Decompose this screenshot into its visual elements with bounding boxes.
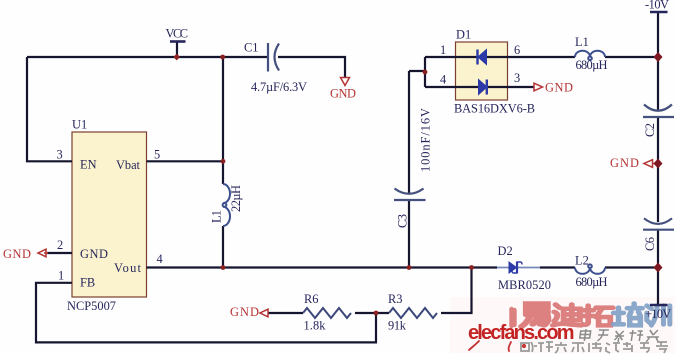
svg-text:4.7µF/6.3V: 4.7µF/6.3V <box>251 80 307 94</box>
svg-text:GND: GND <box>230 305 259 319</box>
svg-text:C6: C6 <box>643 237 657 251</box>
svg-text:R6: R6 <box>304 292 318 306</box>
svg-text:-10V: -10V <box>645 0 669 12</box>
svg-text:GND: GND <box>80 247 108 261</box>
svg-text:EN: EN <box>80 158 97 172</box>
svg-text:GND: GND <box>545 81 573 95</box>
svg-text:FB: FB <box>80 276 95 290</box>
svg-text:C3: C3 <box>396 214 410 228</box>
svg-text:4: 4 <box>157 252 163 266</box>
svg-text:GND: GND <box>610 156 639 170</box>
svg-text:Vbat: Vbat <box>116 158 141 172</box>
svg-text:22µH: 22µH <box>229 185 243 212</box>
svg-text:1: 1 <box>58 269 64 283</box>
svg-text:+10V: +10V <box>645 307 671 321</box>
svg-text:L2: L2 <box>575 254 589 268</box>
svg-text:GND: GND <box>3 247 31 261</box>
svg-text:BAS16DXV6-B: BAS16DXV6-B <box>454 102 535 116</box>
svg-text:4: 4 <box>440 73 446 87</box>
svg-text:VCC: VCC <box>166 27 189 41</box>
svg-text:2: 2 <box>57 238 63 252</box>
svg-text:L1: L1 <box>210 210 224 223</box>
svg-text:NCP5007: NCP5007 <box>67 299 116 313</box>
svg-text:MBR0520: MBR0520 <box>498 278 551 292</box>
svg-text:1.8k: 1.8k <box>304 319 327 333</box>
svg-text:680µH: 680µH <box>576 58 608 72</box>
svg-text:D2: D2 <box>498 244 513 258</box>
svg-text:elecfans.com: elecfans.com <box>468 322 574 344</box>
svg-text:D1: D1 <box>456 28 471 42</box>
svg-text:R3: R3 <box>388 292 402 306</box>
svg-text:L1: L1 <box>575 35 589 49</box>
svg-text:C1: C1 <box>244 41 258 55</box>
svg-text:680µH: 680µH <box>576 275 608 289</box>
svg-text:5: 5 <box>154 147 160 161</box>
svg-text:100nF/16V: 100nF/16V <box>419 108 433 172</box>
svg-text:3: 3 <box>514 71 520 85</box>
svg-text:1: 1 <box>440 43 446 57</box>
svg-text:C2: C2 <box>643 123 657 137</box>
svg-text:6: 6 <box>514 43 520 57</box>
svg-text:GND: GND <box>330 87 356 101</box>
svg-text:91k: 91k <box>388 319 407 333</box>
svg-text:3: 3 <box>57 147 63 161</box>
svg-text:Vout: Vout <box>114 261 142 275</box>
svg-text:U1: U1 <box>72 117 87 131</box>
